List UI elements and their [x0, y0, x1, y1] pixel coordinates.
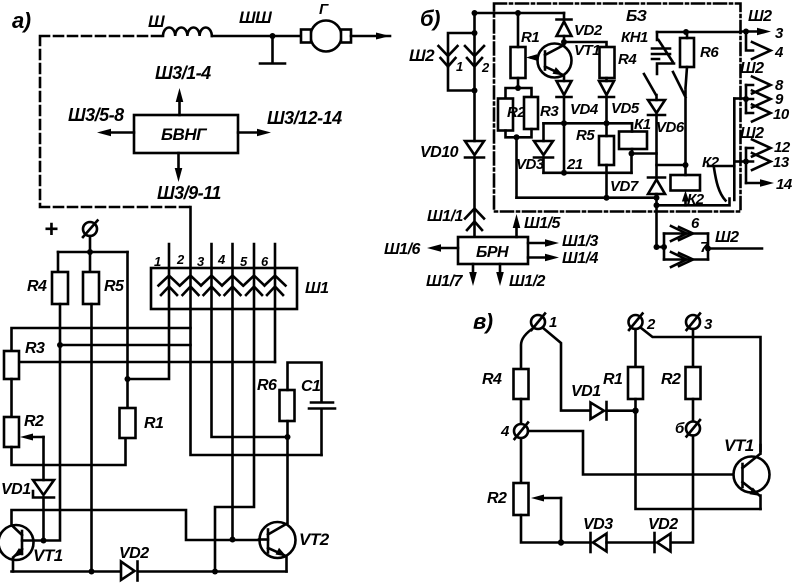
node dot rail	[212, 569, 218, 575]
pin 6 chevron	[664, 232, 708, 235]
pin 1 chevron	[439, 46, 458, 56]
svg-text:VD10: VD10	[420, 144, 459, 161]
inductor winding	[163, 27, 212, 36]
resistor R1	[628, 367, 643, 399]
diode VD2	[653, 533, 656, 552]
svg-text:4: 4	[500, 423, 510, 440]
node dot bottom bracket	[472, 88, 478, 94]
wire pin9 pin13 column	[733, 99, 736, 201]
wire arrow down Ш1/7	[472, 264, 475, 274]
svg-text:Ш3/9-11: Ш3/9-11	[157, 183, 221, 203]
wire R4 column down	[46, 304, 60, 541]
node dot bottom	[558, 539, 564, 545]
wire arrow right Ш1/3	[528, 242, 546, 245]
wire R1 bottom stub	[517, 78, 520, 88]
wire R1 top stub	[517, 13, 520, 47]
diode VD7	[648, 178, 665, 195]
wire wiper down to VD1	[42, 437, 45, 480]
diode VD2	[121, 562, 135, 581]
wire VD3 to VD2	[607, 541, 655, 544]
wire C1 bottom	[320, 410, 323, 456]
wire KN1 R6 top rail	[657, 31, 741, 34]
wire R3 top to pin2	[12, 328, 191, 351]
svg-text:б: б	[675, 420, 685, 437]
resistor R5	[83, 272, 99, 304]
pin 4 chevron	[746, 32, 771, 60]
wire R4 to pin2	[60, 344, 191, 347]
wire R2 to terminal 6	[692, 399, 695, 422]
wire pins 8-10 bracket	[745, 85, 748, 113]
svg-text:10: 10	[773, 106, 790, 123]
resistor R2 right	[686, 367, 701, 399]
connector Ш1 block	[151, 268, 297, 309]
svg-text:Ш2: Ш2	[740, 60, 764, 77]
wire R2 bottom rail	[521, 515, 591, 543]
svg-text:1: 1	[456, 59, 463, 74]
svg-text:Ш2: Ш2	[409, 46, 435, 65]
svg-text:а): а)	[12, 8, 31, 33]
wire pin bottoms bracket	[448, 13, 475, 91]
resistor R2	[498, 99, 513, 131]
svg-text:БВНГ: БВНГ	[161, 125, 208, 144]
wire arrow left Ш3/5-8	[110, 131, 134, 134]
wire K2 coil bottom arrow	[684, 198, 687, 205]
wire bottom node row y205	[657, 199, 730, 206]
wire R6 top stub	[686, 32, 689, 38]
svg-text:Ш1/2: Ш1/2	[509, 273, 546, 290]
wire arrow right Ш3/12-14	[238, 131, 258, 134]
node dot rail R5	[89, 569, 95, 575]
wire R3 side to pin6	[19, 361, 275, 364]
wire K1 top stub	[631, 123, 634, 131]
wire arrow left Ш1/6	[440, 247, 458, 250]
node dot R1 top	[125, 376, 131, 382]
resistor R4	[52, 272, 68, 304]
wire pin2 down to C1 bottom	[191, 309, 322, 455]
wire arrow down Ш3/9-11	[177, 153, 180, 170]
wire supply rail	[58, 251, 128, 254]
svg-text:14: 14	[776, 176, 792, 193]
wire VD1 to R1 node	[607, 409, 636, 412]
svg-text:КН1: КН1	[621, 29, 648, 46]
wire row to VD3	[542, 123, 545, 141]
wire dashed harness left side	[40, 36, 189, 207]
terminal 6	[686, 422, 700, 436]
svg-text:б): б)	[420, 6, 440, 31]
wire R3 to R2	[10, 379, 13, 417]
relay coil K2	[671, 175, 701, 191]
wire terminal 4 to R2 left	[520, 439, 523, 484]
svg-text:Ш1/5: Ш1/5	[524, 215, 562, 232]
wire R2 R3 top bracket	[506, 88, 532, 99]
wire terminal 2 to collector rail	[641, 328, 761, 452]
wire bottom bracket y172	[544, 172, 632, 175]
wire coil to motor	[212, 35, 301, 38]
wire pin3 stub above	[210, 244, 213, 309]
wire VD7 to rails	[655, 194, 658, 247]
svg-text:VD2: VD2	[574, 22, 603, 39]
resistor R3	[524, 97, 538, 129]
wire BZ bottom rail	[517, 196, 657, 199]
resistor R5	[599, 136, 614, 165]
wire rail down to R1	[126, 252, 129, 408]
transistor VT1	[734, 457, 770, 493]
svg-text:Ш1/7: Ш1/7	[426, 273, 464, 290]
svg-text:6: 6	[691, 215, 700, 232]
node dot bracket	[472, 30, 478, 36]
svg-text:VD1: VD1	[571, 383, 601, 400]
pin 6 chevron	[265, 276, 286, 286]
svg-text:БЗ: БЗ	[626, 8, 647, 25]
diode VD2	[557, 20, 572, 37]
svg-text:3: 3	[704, 316, 713, 333]
wire R2 wiper arrow	[30, 436, 44, 439]
wire VT1 collector emitter stubs	[759, 445, 762, 509]
block BRN	[458, 237, 528, 264]
wire pins 12-13 bracket	[745, 148, 748, 183]
resistor R6	[280, 390, 295, 421]
svg-text:Ш3/12-14: Ш3/12-14	[267, 108, 342, 128]
resistor R3	[4, 351, 19, 379]
wire down to VD10	[473, 91, 476, 142]
wire pin14 arrow	[746, 182, 763, 185]
svg-text:VD4: VD4	[570, 101, 599, 118]
relay coil K1	[619, 132, 647, 150]
wire R5 bottom to rail	[605, 165, 608, 198]
svg-text:Ш1: Ш1	[305, 280, 329, 297]
ground	[271, 36, 274, 62]
wire VT1 emitter to VD4	[563, 76, 566, 81]
resistor R1	[511, 47, 526, 78]
resistor R4	[600, 47, 615, 78]
svg-text:Ш1/6: Ш1/6	[384, 241, 421, 258]
pin 9 chevron	[746, 91, 771, 108]
svg-text:3: 3	[775, 25, 784, 42]
pin 3 chevron	[201, 276, 222, 286]
wire terminal 3 to R2	[692, 329, 695, 367]
node dot VT1 base	[41, 538, 47, 544]
diode VD4	[557, 81, 572, 97]
diode VD3	[534, 141, 553, 158]
connector Ш1/1 chevron	[465, 209, 484, 219]
svg-text:Ш1/4: Ш1/4	[562, 250, 599, 267]
wire pin1 top bracket	[448, 33, 475, 67]
svg-text:VD3: VD3	[516, 156, 545, 173]
wire to pin13	[734, 160, 746, 163]
wire terminal1 to R4	[521, 328, 534, 370]
wire collector VT1 to VT2 base	[12, 510, 260, 540]
terminal 3	[686, 315, 700, 329]
diode VD5	[599, 81, 614, 97]
wire to pin9	[734, 97, 746, 100]
wire KN1 to VD6	[644, 74, 657, 100]
svg-text:Ш2: Ш2	[715, 229, 739, 246]
diode VD10	[465, 141, 484, 158]
wire pin6 stub above	[274, 244, 277, 309]
svg-text:R3: R3	[540, 103, 559, 120]
zener diode VD1	[33, 480, 54, 498]
generator motor symbol	[311, 21, 342, 52]
svg-text:БРН: БРН	[476, 244, 509, 261]
svg-text:1: 1	[154, 254, 161, 269]
wire VD10 to Ш1/1	[473, 158, 476, 238]
resistor R4	[514, 369, 529, 399]
resistor R2 left variable	[514, 483, 529, 515]
wire pin3 down to R6 bottom	[212, 309, 288, 437]
svg-text:R4: R4	[482, 371, 502, 388]
wire collector node to R4	[564, 42, 607, 47]
transistor VT1	[538, 44, 572, 78]
svg-text:2: 2	[646, 316, 656, 333]
wire VD2 top stub	[563, 13, 566, 20]
svg-text:Ш1/1: Ш1/1	[427, 208, 464, 225]
svg-text:Г: Г	[319, 1, 329, 18]
wire R4 to terminal 4	[520, 399, 523, 424]
svg-text:2: 2	[176, 252, 185, 267]
svg-text:VD5: VD5	[611, 100, 640, 117]
svg-text:Ш3/1-4: Ш3/1-4	[155, 63, 211, 83]
wire motor output arrow	[351, 35, 390, 38]
svg-text:R6: R6	[257, 377, 277, 394]
wire tap to K2 coil	[657, 164, 686, 167]
transistor VT1	[0, 525, 34, 560]
wire terminal to rail	[89, 236, 92, 252]
svg-text:Ш3/5-8: Ш3/5-8	[68, 105, 124, 125]
node dot R4 line	[57, 342, 63, 348]
wire VD6 column down	[655, 115, 658, 178]
svg-text:R5: R5	[104, 278, 125, 295]
svg-text:21: 21	[566, 156, 583, 173]
wire pin5 down to ground rail	[215, 309, 254, 572]
wire pins 6-7 brackets	[664, 234, 708, 260]
wire K2 coil top stub	[684, 165, 687, 175]
node dot R6 bottom	[285, 434, 291, 440]
svg-text:VD2: VD2	[648, 516, 678, 533]
wire terminal 4 to VT1 base	[528, 431, 734, 475]
wire R5 top stub	[605, 123, 608, 136]
wire pin4 stub above	[231, 244, 234, 309]
svg-text:Ш2: Ш2	[748, 8, 772, 25]
svg-text:VD2: VD2	[119, 545, 149, 562]
diode VD6	[648, 100, 665, 115]
wire arrow up Ш1/5	[515, 226, 518, 237]
svg-text:VD6: VD6	[656, 119, 685, 136]
pin 12 chevron	[746, 140, 771, 157]
node dot bracket	[561, 170, 567, 176]
capacitor C1	[311, 401, 333, 404]
wire R6 top tee	[288, 363, 322, 403]
svg-text:1: 1	[549, 314, 557, 331]
svg-text:4: 4	[774, 44, 784, 61]
block BVNG	[134, 115, 238, 153]
wire VD7 node to pins 6 7	[657, 246, 665, 249]
svg-text:2: 2	[481, 60, 490, 75]
wire pin4 down to VT2 base	[231, 309, 234, 540]
wire VD4 to node row	[563, 97, 566, 123]
node dot	[472, 10, 478, 16]
wire bracket right end up	[632, 154, 657, 173]
resistor R2 variable	[4, 417, 19, 447]
wire R2 wiper arrow	[542, 497, 561, 500]
svg-text:VT1: VT1	[33, 546, 63, 565]
wire node row y123	[544, 122, 633, 125]
wire arrow down Ш1/2	[499, 264, 502, 274]
svg-text:C1: C1	[301, 378, 321, 395]
svg-text:VD7: VD7	[610, 178, 639, 195]
svg-text:Ш1/3: Ш1/3	[562, 233, 599, 250]
terminal screw top left	[83, 222, 97, 236]
wire R1 node down to emitter line	[636, 399, 761, 509]
wire VD1 to VT1 base node	[42, 498, 45, 541]
svg-text:R4: R4	[27, 278, 47, 295]
wire pin1 down to R1 node	[128, 309, 170, 379]
svg-text:R2: R2	[661, 371, 681, 388]
resistor R6	[680, 38, 694, 67]
svg-text:VT1: VT1	[724, 436, 754, 455]
wire VD4 column to bracket	[563, 123, 566, 173]
node dot collector	[561, 39, 567, 45]
wire R6 bottom to VT2 collector	[286, 421, 289, 523]
wire ground rail	[12, 570, 121, 573]
terminal 2	[629, 315, 643, 329]
node junction dot	[270, 33, 276, 39]
wire R4 to VD5	[605, 78, 608, 81]
wire pin2 stub above to dashed harness	[189, 207, 192, 309]
resistor R1	[120, 408, 136, 438]
wire R1 wiper to VT1 base	[531, 56, 545, 59]
svg-text:в): в)	[473, 309, 493, 334]
wire arrow right Ш1/4	[528, 256, 546, 259]
wire VD3 to bottom bracket	[542, 158, 545, 173]
wire R2 R3 bottom bracket	[506, 129, 532, 137]
terminal 1	[531, 315, 545, 329]
svg-text:К1: К1	[634, 116, 651, 133]
terminal 4	[514, 424, 528, 438]
wire VD5 to node row	[605, 97, 608, 123]
svg-text:VD3: VD3	[583, 516, 613, 533]
wire K1 bottom node	[631, 149, 634, 154]
svg-text:R3: R3	[25, 340, 45, 357]
svg-text:R6: R6	[700, 44, 719, 61]
svg-text:VD1: VD1	[1, 481, 31, 498]
wire pin6 down	[274, 309, 277, 362]
block BZ dash-dot border	[494, 4, 741, 212]
wire top rail	[475, 12, 565, 15]
transistor VT2	[260, 522, 296, 558]
pin 10 chevron	[746, 105, 771, 122]
wire rail to R4	[57, 252, 60, 272]
wire R2 bottom to R1 bottom	[12, 438, 126, 465]
wire VT2 emitter to rail	[285, 556, 288, 572]
svg-text:R1: R1	[521, 29, 539, 46]
wire Ш2 cable right	[708, 247, 762, 250]
svg-text:13: 13	[773, 154, 790, 171]
wire terminal 2 to R1	[634, 329, 637, 367]
wire R5 column down	[90, 304, 93, 572]
wire rail to R5	[89, 252, 92, 272]
wire terminal 6 down to VD2	[671, 436, 693, 543]
svg-text:К2: К2	[702, 154, 720, 171]
wire R6 bottom and KN1 blade to K2	[673, 67, 687, 165]
pin 4 chevron	[222, 276, 243, 286]
wire pin5 stub above	[253, 244, 256, 309]
svg-text:R4: R4	[618, 51, 637, 68]
wire pin1 stub above	[168, 244, 171, 309]
diode VD3	[589, 533, 592, 552]
wire arrow up Ш3/1-4	[178, 99, 181, 115]
wire pin3 arrow	[741, 30, 761, 33]
svg-text:4: 4	[217, 252, 226, 267]
wire rail left end up to R2R3	[515, 137, 518, 197]
pin 7 chevron	[664, 258, 708, 261]
svg-text:R5: R5	[576, 127, 595, 144]
wire VD2 to collector node	[563, 36, 566, 45]
svg-text:+: +	[44, 216, 58, 243]
wire wiper down to bottom	[560, 498, 563, 543]
wire VT1 emitter to rail	[12, 558, 15, 572]
svg-text:R1: R1	[603, 371, 623, 388]
svg-text:Ш: Ш	[148, 12, 165, 31]
svg-text:ШШ: ШШ	[239, 8, 272, 27]
pin 8 chevron	[746, 77, 771, 94]
node dot R1 top	[515, 10, 521, 16]
node dot under R1	[632, 408, 638, 414]
svg-text:R1: R1	[144, 415, 164, 432]
svg-text:R2: R2	[24, 413, 44, 430]
node dot VT2 base	[230, 537, 236, 543]
wire terminal1 right branch to VD1	[543, 328, 589, 411]
svg-text:VT1: VT1	[574, 42, 600, 59]
svg-text:R2: R2	[487, 490, 507, 507]
svg-text:VT2: VT2	[299, 530, 330, 549]
pin 1 chevron	[159, 276, 180, 286]
node dot	[87, 249, 93, 255]
pin 2 chevron	[465, 46, 484, 56]
pin 13 chevron	[746, 153, 771, 170]
diode VD1	[591, 403, 605, 420]
pin 5 chevron	[244, 276, 265, 286]
pin 2 chevron	[180, 276, 201, 286]
